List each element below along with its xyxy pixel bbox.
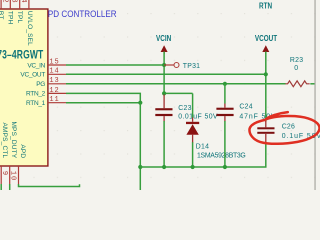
junction bottom bus left: [138, 165, 142, 169]
IC U12 body: [0, 9, 48, 166]
wire C23 to D14 branch: [164, 92, 193, 94]
svg-text:VC_OUT: VC_OUT: [20, 72, 45, 79]
pin name TPL: [16, 11, 23, 24]
junction C23 top: [162, 91, 166, 95]
junction VCIN/pin15: [162, 63, 166, 67]
annotation ellipse around C26: [249, 112, 319, 144]
pin name TPH: [7, 11, 14, 25]
pin number 9: [0, 171, 8, 176]
pin 14 VC_OUT: [48, 73, 66, 75]
wire D14 top: [192, 93, 194, 117]
svg-text:73–4RGWT: 73–4RGWT: [0, 49, 44, 62]
wire D14 bottom: [192, 142, 194, 167]
svg-text:1SMA5928BT3G: 1SMA5928BT3G: [197, 153, 246, 160]
junction D14 bottom: [191, 165, 195, 169]
svg-text:UVLO_SEL: UVLO_SEL: [26, 11, 33, 46]
sheet note PD CONTROLLER: [48, 9, 117, 20]
svg-text:3: 3: [10, 0, 18, 4]
svg-text:BT: BT: [0, 11, 4, 20]
resistor R23: [285, 81, 309, 87]
wire pin14 to VCOUT: [66, 73, 266, 75]
pin number (cut): [10, 0, 18, 4]
pin name MPS_DUTY: [10, 121, 17, 158]
test point TP31 lead: [164, 64, 174, 66]
svg-text:C26: C26: [282, 124, 295, 131]
pin stub top 1: [0, 0, 2, 9]
svg-text:RTN_2: RTN_2: [26, 91, 46, 98]
svg-text:TPL: TPL: [16, 11, 23, 24]
wire RTN vertical down: [139, 103, 141, 190]
svg-text:14: 14: [49, 68, 59, 76]
svg-text:VC_IN: VC_IN: [27, 62, 45, 69]
wire: [0, 184, 2, 190]
wire pin15: [66, 64, 164, 66]
pin number (cut): [19, 0, 27, 4]
pin stub bottom 10: [18, 166, 20, 184]
pin stub top 4: [28, 0, 30, 9]
pin name APD: [19, 144, 26, 158]
test point TP31 ring: [174, 63, 179, 68]
wire VCIN down: [163, 52, 165, 95]
wire pin11 RTN_1: [66, 102, 140, 104]
svg-text:C24: C24: [239, 104, 252, 111]
pin number (cut): [0, 0, 8, 4]
capacitor C24: [224, 84, 226, 104]
pin name UVLO_SEL: [26, 11, 33, 46]
svg-text:RTN_1: RTN_1: [26, 100, 46, 107]
junction RTN_1/RTN_2: [138, 101, 142, 105]
svg-text:TPH: TPH: [7, 11, 14, 25]
pin 11 RTN_1: [48, 102, 66, 104]
capacitor C26: [265, 121, 267, 127]
wire pin12 RTN_2: [66, 93, 140, 102]
wire C23 bottom: [163, 121, 165, 167]
zener diode D14: [192, 118, 194, 122]
svg-text:10: 10: [9, 171, 17, 181]
svg-text:0: 0: [294, 65, 298, 72]
pin 15 VC_IN: [48, 64, 66, 66]
svg-text:15: 15: [49, 58, 59, 66]
junction C24/PG: [223, 82, 227, 86]
svg-text:11: 11: [49, 96, 59, 104]
svg-text:12: 12: [49, 87, 59, 95]
svg-text:2: 2: [0, 0, 8, 4]
power label RTN: [259, 0, 272, 10]
pin name BT (cut): [0, 11, 4, 20]
svg-text:VCOUT: VCOUT: [255, 33, 278, 43]
svg-text:13: 13: [49, 77, 59, 85]
svg-text:PD CONTROLLER: PD CONTROLLER: [48, 9, 117, 20]
svg-text:4: 4: [19, 0, 27, 4]
wire R23 right: [310, 83, 314, 85]
power symbol VCOUT: [255, 33, 278, 43]
svg-text:PG: PG: [36, 81, 45, 88]
pin 12 RTN_2: [48, 92, 66, 94]
svg-text:9: 9: [0, 171, 8, 176]
junction C23 bottom: [162, 165, 166, 169]
junction C24 bottom: [223, 165, 227, 169]
pin stub top 3: [19, 0, 21, 9]
capacitor C23: [163, 95, 165, 109]
svg-text:AMPS_CTL: AMPS_CTL: [1, 123, 8, 159]
pin 13 PG: [48, 83, 66, 85]
svg-text:MPS_DUTY: MPS_DUTY: [10, 121, 17, 158]
svg-text:APD: APD: [19, 144, 26, 158]
pin name AMPS_CTL: [1, 123, 8, 159]
svg-text:C23: C23: [178, 105, 191, 112]
wire pin13 PG to R23: [66, 83, 286, 85]
pin stub bottom 9: [9, 166, 11, 184]
svg-text:D14: D14: [196, 143, 209, 150]
svg-text:VCIN: VCIN: [156, 33, 171, 43]
pin stub top 2: [9, 0, 11, 9]
wire pin10 down and right: [19, 184, 80, 187]
wire: [9, 184, 11, 190]
wire C24 bottom: [224, 121, 226, 167]
pin number 10: [9, 171, 17, 181]
svg-text:R23: R23: [290, 57, 303, 64]
wire VCOUT down: [265, 52, 267, 122]
junction VCOUT/pin14: [264, 72, 268, 76]
svg-text:TP31: TP31: [183, 63, 200, 70]
svg-text:0.01uF 50V: 0.01uF 50V: [178, 113, 218, 120]
IC value 73-4RGWT: [0, 49, 44, 62]
wire bottom bus: [140, 142, 265, 167]
svg-text:RTN: RTN: [259, 0, 272, 10]
power symbol VCIN: [156, 33, 171, 43]
pin stub bottom 8 (number cut): [0, 166, 2, 184]
